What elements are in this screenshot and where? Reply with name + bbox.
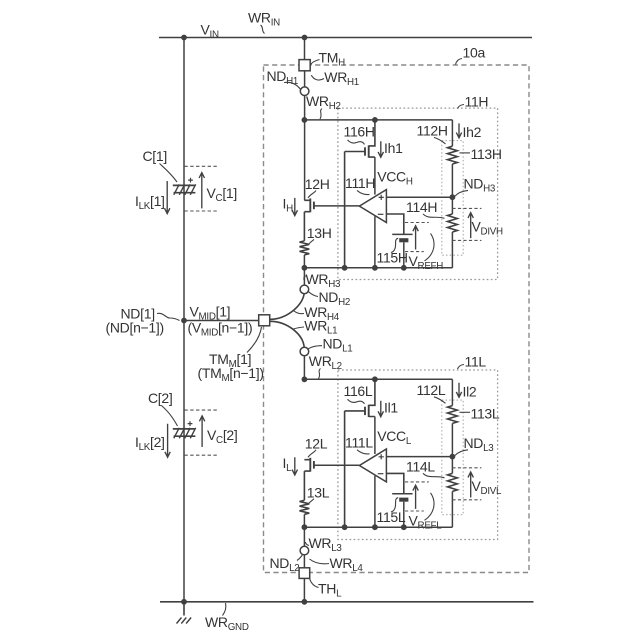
junction gate line / ground rail 11H [342, 265, 348, 271]
terminal TM_H (square) [299, 60, 310, 71]
arrow I_H (stack current) [292, 198, 297, 216]
arrow I_L (stack current) [292, 457, 297, 475]
svg-text:112H: 112H [417, 122, 448, 138]
arrow Ih2 (divider current) [456, 123, 461, 137]
junction stack wire / ground rail 11H [302, 265, 308, 271]
node ND_H1 (circle) [300, 87, 309, 96]
wire VCC_L (116L drain to op-amp) [374, 417, 376, 455]
svg-text:13L: 13L [307, 484, 330, 500]
divider group box in 11L (dotted) [442, 400, 463, 515]
svg-text:C[2]: C[2] [148, 390, 172, 406]
svg-text:111H: 111H [345, 175, 375, 191]
svg-text:Ih1: Ih1 [384, 140, 403, 156]
junction 115H / rail 11H [401, 265, 407, 271]
transistor 116H (PMOS current source) [369, 120, 375, 157]
wire divider bottom 11L [451, 491, 453, 527]
svg-text:116H: 116H [344, 123, 375, 139]
wire op-amp + input from ND_L3 [386, 456, 452, 458]
svg-text:Il2: Il2 [463, 383, 477, 399]
dashed extents V_DIVH [452, 207, 481, 209]
wire VCC_H (116H drain to op-amp) [374, 157, 376, 195]
wire 13L to ground rail [303, 514, 305, 527]
wire 115L to ground rail [403, 502, 405, 528]
divider group box in 11H (dotted) [442, 141, 463, 256]
svg-text:116L: 116L [344, 383, 373, 399]
wire op-amp ground 111H [374, 216, 376, 267]
ground symbol [183, 602, 185, 616]
resistor 112L/113L [448, 406, 458, 424]
junction V_IN / TM_H branch [302, 35, 308, 41]
node ND_L3 junction [450, 454, 456, 460]
svg-text:111L: 111L [345, 434, 373, 450]
capacitor C[1] [173, 185, 196, 192]
wire V_IN rail to TM_H [304, 38, 306, 60]
wire TH_L to ground rail [303, 578, 305, 601]
svg-text:113L: 113L [471, 405, 500, 421]
wire op-amp - input to 115L [386, 473, 403, 493]
wire comparator ground rail (bottom) 11H [304, 267, 452, 269]
wire divider mid to ND_H3 [451, 164, 453, 214]
node ND_H2 (circle) [300, 285, 309, 294]
arrow Ih1 (116H drain current) [378, 141, 383, 157]
wire battery stack (left vertical) [183, 38, 185, 602]
junction stack wire / supply rail 11L [302, 376, 308, 382]
resistor 112H/113H [448, 146, 458, 164]
arrow V_C[1] [199, 173, 204, 209]
wire op-amp ground 111L [374, 476, 376, 528]
monitor unit 11L (dotted box) [338, 370, 498, 540]
arrow V_C[2] [199, 416, 204, 447]
svg-text:(ND[n−1]): (ND[n−1]) [106, 320, 164, 336]
resistor 13H (sense) [300, 241, 310, 255]
wire op-amp + input from ND_H3 [386, 196, 452, 198]
arrow Il2 (divider current) [456, 383, 461, 398]
junction 115L / rail 11L [401, 524, 407, 530]
wire WR_H4 (curve ND_H2 to TM_M) [270, 294, 304, 320]
junction gate line / ground rail 11L [342, 524, 348, 530]
wire divider top 11H [451, 120, 453, 146]
wire divider mid to ND_L3 [451, 423, 453, 473]
svg-text:12H: 12H [305, 176, 330, 192]
wire divider bottom 11H [451, 232, 453, 268]
junction op-amp ground / rail 11L [372, 524, 378, 530]
wire ground rail 11L to WR_L3 node [303, 527, 305, 546]
wire comparator supply rail (top) 11H [304, 119, 452, 121]
wire op-amp output to gate of 12H [314, 205, 360, 207]
svg-text:114L: 114L [406, 458, 435, 474]
wire WR_L4 (circle to TH_L) [303, 555, 305, 568]
resistor 13L (sense) [300, 500, 310, 514]
arrow V_REFL [413, 485, 418, 509]
op-amp 111L (comparator) [359, 449, 386, 482]
terminal TM_M[1] (square) [259, 315, 270, 326]
wire op-amp output to gate of 12L [314, 464, 360, 466]
dashed extents of C[2] [184, 409, 218, 411]
arrow I_LK[1] [165, 181, 170, 214]
arrow V_DIVL [468, 472, 473, 498]
svg-text:113H: 113H [471, 146, 502, 162]
svg-text:11H: 11H [465, 94, 489, 110]
reference source 115H (battery) [392, 233, 412, 235]
resistor 114H [448, 214, 458, 232]
arrow Il1 (116L drain current) [378, 401, 383, 417]
node ND_L1 (circle) [300, 347, 309, 356]
svg-text:Il1: Il1 [384, 399, 398, 415]
svg-text:13H: 13H [307, 225, 332, 241]
terminal TH_L (square) [299, 568, 310, 579]
wire 13H to ground rail [303, 255, 305, 268]
transistor 12H (pass MOSFET) [304, 200, 310, 241]
junction op-amp ground / rail 11H [372, 265, 378, 271]
junction 116L source / supply rail [372, 376, 378, 382]
junction V_IN / stack wire [181, 35, 187, 41]
wire comparator supply rail (top) 11L [304, 378, 452, 380]
resistor 114L [448, 473, 458, 491]
svg-text:11L: 11L [465, 354, 487, 370]
wire WR_L1 (curve TM_M to ND_L1) [270, 321, 304, 347]
wire 115H to ground rail [403, 242, 405, 267]
svg-text:112L: 112L [417, 382, 446, 398]
wire V_MID[1] (stack to TM_M) [184, 320, 259, 322]
wire WR_GND (bottom rail) [160, 601, 534, 603]
dashed extents of C[1] [184, 165, 218, 167]
plus polarity mark C[2] [188, 421, 193, 426]
junction 116H source / supply rail [372, 117, 378, 123]
svg-text:C[1]: C[1] [143, 148, 167, 164]
capacitor C[2] [173, 429, 196, 436]
gate wire of 116H [345, 152, 365, 268]
dashed extents V_DIVL [452, 467, 481, 469]
transistor 116L (PMOS current source) [369, 379, 375, 416]
junction stack / V_MID wire [181, 318, 187, 324]
wire WR_H2 (ND_H1 down) [304, 96, 306, 201]
arrow V_REFH [413, 226, 418, 250]
arrow V_DIVH [468, 213, 473, 239]
monitoring IC block 10a (dashed box) [264, 65, 530, 573]
svg-text:114H: 114H [406, 199, 437, 215]
op-amp 111H (comparator) [359, 190, 386, 223]
svg-text:Ih2: Ih2 [463, 124, 482, 140]
wire op-amp - input to 115H [386, 214, 403, 234]
gate wire of 116L [345, 411, 365, 527]
junction stack wire / supply rail 11H [302, 117, 308, 123]
wire WR_IN (V_IN top rail) [159, 37, 532, 39]
svg-text:10a: 10a [463, 45, 486, 61]
wire divider top 11L [451, 379, 453, 405]
wire WR_H1 (TM_H to ND_H1) [304, 71, 306, 87]
reference source 115L (battery) [392, 493, 412, 495]
node ND_H3 junction [450, 194, 456, 200]
transistor 12L (pass MOSFET) [304, 460, 310, 501]
dashed extents V_REFL [405, 481, 429, 483]
arrow I_LK[2] [165, 424, 170, 458]
junction stack wire / ground rail 11L [302, 524, 308, 530]
wire comparator ground rail (bottom) 11L [304, 526, 452, 528]
wire WR_L2 (ND_L1 down to 11L) [303, 356, 305, 380]
wire ground rail 11H to WR_H3 node [303, 268, 305, 285]
junction GND / TH_L branch [302, 599, 308, 605]
dashed extents V_REFH [405, 222, 429, 224]
node circle above TH_L [300, 546, 309, 555]
svg-text:12L: 12L [305, 435, 328, 451]
junction GND / stack wire [181, 599, 187, 605]
plus polarity mark C[1] [188, 178, 193, 183]
monitor unit 11H (dotted box) [338, 108, 498, 279]
